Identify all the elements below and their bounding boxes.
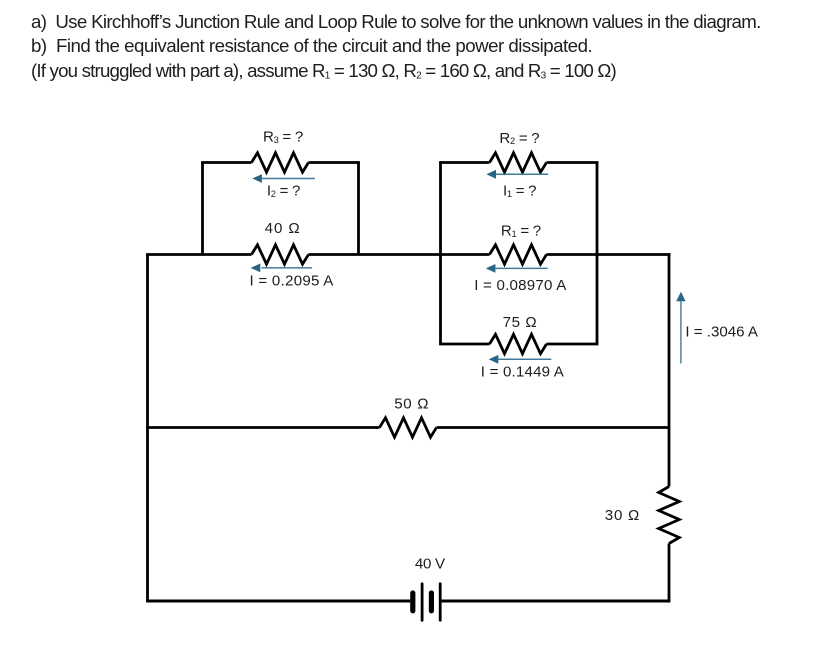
resistor 50 Ohm (380, 418, 437, 437)
svg-text:30 Ω: 30 Ω (605, 507, 640, 524)
wire middle horizontal left segment (146, 426, 379, 429)
wire outer right vertical upper (668, 253, 671, 486)
problem statement line b (31, 37, 592, 56)
wire right branch top-left segment (439, 161, 489, 164)
wire right branch bottom-right segment (547, 343, 599, 346)
svg-text:R2 = ?: R2 = ? (499, 130, 539, 147)
wire outer bottom left segment (146, 600, 410, 603)
current arrow under 40 Ohm (251, 264, 312, 273)
svg-text:I1 = ?: I1 = ? (503, 183, 536, 200)
svg-text:I = 0.1449 A: I = 0.1449 A (481, 363, 565, 380)
resistor R1 (490, 245, 547, 264)
wire left branch top-right segment (309, 161, 360, 164)
svg-text:I2 = ?: I2 = ? (267, 183, 300, 200)
resistor R3 (252, 153, 309, 172)
svg-text:I = 0.08970 A: I = 0.08970 A (474, 277, 567, 294)
resistor R2 (490, 153, 547, 172)
resistor 40 Ohm (252, 245, 309, 264)
current arrow I total on right vertical (676, 292, 685, 364)
wire left branch left vertical (201, 163, 204, 255)
problem statement line a (31, 13, 761, 32)
wire main horizontal right segment (547, 253, 671, 256)
battery V1 40 V (413, 584, 440, 620)
wire middle horizontal right segment (437, 426, 670, 429)
wire main horizontal middle segment (309, 253, 490, 256)
resistor 75 Ohm (490, 334, 547, 353)
wire left branch top-left segment (201, 161, 251, 164)
current arrow I1 under R2 (486, 170, 548, 179)
problem statement line hint (31, 62, 616, 81)
resistor 30 Ohm (659, 487, 680, 544)
wire right branch bottom-left segment (439, 343, 489, 346)
wire outer left vertical (146, 255, 149, 602)
svg-text:R3 = ?: R3 = ? (263, 129, 303, 146)
wire outer bottom right segment (442, 600, 671, 603)
svg-text:R1 = ?: R1 = ? (501, 223, 541, 240)
current arrow I2 under R3 (252, 174, 315, 183)
wire main horizontal left segment (146, 253, 251, 256)
svg-text:40 Ω: 40 Ω (265, 220, 301, 237)
svg-text:I = 0.2095 A: I = 0.2095 A (250, 273, 335, 290)
wire right branch right vertical (596, 163, 599, 345)
wire right branch left vertical (439, 163, 442, 345)
svg-text:50 Ω: 50 Ω (394, 395, 429, 412)
wire left branch right vertical (357, 163, 360, 255)
wire outer right vertical lower (668, 544, 671, 602)
svg-text:75 Ω: 75 Ω (503, 314, 538, 331)
svg-text:40 V: 40 V (415, 556, 445, 573)
current arrow under 75 Ohm (489, 355, 552, 364)
svg-text:I = .3046 A: I = .3046 A (685, 324, 759, 341)
wire right branch top-right segment (547, 161, 599, 164)
current arrow under R1 (486, 264, 548, 273)
